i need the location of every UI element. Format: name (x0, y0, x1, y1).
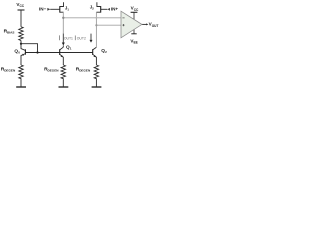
svg-text:CC: CC (134, 8, 139, 12)
svg-text:OUT1: OUT1 (64, 36, 73, 40)
svg-text:OUT2: OUT2 (77, 36, 86, 40)
svg-text:DEGEN: DEGEN (79, 69, 91, 73)
svg-text:IN+: IN+ (111, 6, 119, 11)
svg-text:BIAS: BIAS (7, 31, 14, 35)
svg-text:DEGEN: DEGEN (4, 69, 16, 73)
svg-text:IN−: IN− (39, 6, 47, 11)
svg-text:EE: EE (134, 41, 138, 45)
svg-text:DEGEN: DEGEN (48, 69, 60, 73)
svg-text:CC: CC (20, 4, 25, 8)
svg-text:OUT: OUT (152, 24, 159, 28)
